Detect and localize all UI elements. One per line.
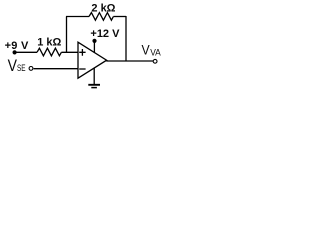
svg-text:SE: SE [17, 63, 26, 73]
wire +12V supply to op-amp top [93, 42, 95, 53]
supply node dot +12V [92, 39, 96, 43]
resistor R2 2k zigzag [89, 13, 113, 21]
terminal VVA [153, 59, 157, 63]
svg-text:+12 V: +12 V [90, 28, 120, 40]
wire VSE to op-amp inverting input [34, 68, 78, 70]
wire feedback left vertical [66, 17, 68, 53]
op-amp U1 triangle [78, 42, 107, 78]
svg-text:+9 V: +9 V [5, 40, 29, 52]
wire op-amp bottom to ground [93, 68, 95, 85]
supply node dot +9V [13, 50, 17, 54]
ground symbol [88, 85, 100, 88]
op-amp plus input symbol [79, 49, 85, 56]
wire feedback top right [113, 16, 126, 18]
wire feedback top left [66, 16, 89, 18]
resistor R1 1k zigzag [37, 48, 61, 56]
svg-text:V: V [142, 42, 151, 58]
svg-text:1 kΩ: 1 kΩ [37, 37, 61, 49]
wire R1 to op-amp noninverting input [61, 51, 78, 53]
wire feedback right vertical [125, 16, 127, 61]
svg-text:VA: VA [150, 48, 161, 58]
wire from +9V node to R1 [15, 51, 37, 53]
svg-text:2 kΩ: 2 kΩ [91, 2, 115, 14]
output wire [106, 60, 153, 62]
terminal VSE [29, 67, 33, 71]
op-amp minus input symbol [79, 68, 85, 70]
